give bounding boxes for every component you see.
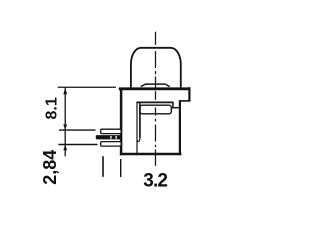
extension line B	[58, 144, 97, 146]
inner thin vertical line	[136, 103, 138, 153]
flange top edge	[119, 87, 191, 90]
L bracket vertical	[139, 103, 141, 138]
arrow down at A	[63, 124, 67, 129]
button dome	[131, 48, 181, 88]
arrow up at B	[63, 145, 67, 151]
body right wall	[179, 100, 181, 155]
body left wall	[120, 88, 123, 155]
pin 1	[101, 129, 121, 133]
L bracket bottom hook	[137, 137, 140, 141]
L bracket step right	[172, 107, 180, 109]
L bracket step down	[172, 102, 174, 108]
dimension shaft	[64, 88, 66, 157]
flange step bottom	[179, 100, 190, 102]
pin 2 notch 1	[110, 136, 111, 139]
bottom extension leg left	[102, 156, 104, 177]
pin 2 notch 2	[116, 136, 117, 139]
pin 3	[101, 142, 121, 147]
svg-text:2,84: 2,84	[40, 150, 60, 185]
centerline	[155, 32, 157, 166]
extension line A	[59, 129, 96, 131]
svg-text:3.2: 3.2	[143, 170, 167, 191]
extension line top (8.1)	[58, 86, 116, 88]
L bracket top horizontal	[136, 101, 173, 103]
actuator trapezoid	[141, 84, 170, 87]
svg-text:8.1: 8.1	[43, 97, 60, 119]
arrow up top	[63, 88, 67, 94]
pin 2	[96, 135, 121, 139]
body bottom edge	[120, 153, 181, 156]
bottom extension leg right	[120, 159, 122, 177]
flange right wall	[188, 87, 190, 101]
slider rounded rect	[140, 105, 172, 114]
